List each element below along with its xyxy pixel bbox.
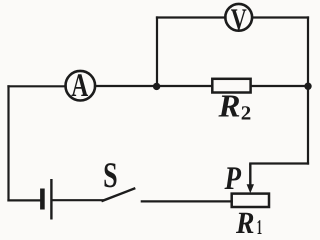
wire ammeter to R2 [95, 85, 212, 87]
svg-text:R: R [217, 87, 240, 123]
rheostat slider arrowhead [247, 184, 254, 193]
wire left vertical (down to battery row) [7, 86, 9, 200]
wire R2 to right node [251, 85, 308, 87]
node junction right [304, 83, 311, 90]
resistor R2 body [212, 79, 250, 93]
svg-text:S: S [103, 155, 118, 195]
wire top-left horizontal (node to voltmeter) [157, 16, 226, 18]
svg-text:A: A [71, 68, 88, 104]
wire left vertical of voltmeter branch [156, 18, 158, 87]
rheostat slider arrow shaft [249, 164, 251, 187]
battery positive plate (long thin) [50, 179, 52, 220]
node junction left [153, 83, 160, 90]
svg-text:P: P [224, 161, 242, 197]
voltmeter U-V circle [225, 4, 252, 31]
wire switch contact to R1 [142, 200, 232, 202]
ammeter U-A circle [66, 71, 96, 101]
wire top-right horizontal (voltmeter to right corner) [253, 16, 309, 18]
switch S lever [103, 189, 135, 201]
svg-text:1: 1 [257, 215, 263, 238]
wire battery to switch pivot [53, 199, 103, 201]
battery negative plate (short thick) [40, 189, 45, 210]
svg-text:V: V [231, 3, 247, 36]
wire bottom-left to battery [9, 199, 41, 201]
wire left horizontal (left corner to ammeter) [9, 85, 66, 87]
svg-text:R: R [235, 205, 254, 238]
wire right vertical (top corner down to slider feed) [307, 18, 309, 164]
svg-text:2: 2 [241, 102, 252, 124]
wire slider feed horizontal [250, 162, 308, 164]
rheostat R1 body [232, 194, 269, 207]
